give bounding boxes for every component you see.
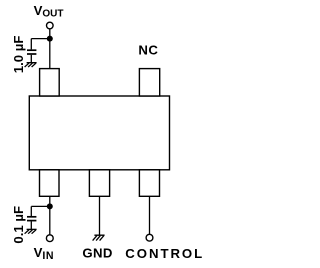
wire: VOUT terminal to pin 5 xyxy=(49,29,51,69)
svg-text:0.1 µF: 0.1 µF xyxy=(11,206,26,244)
svg-text:NC: NC xyxy=(138,43,158,58)
ground (C1) xyxy=(25,63,37,67)
capacitor C1 1.0uF xyxy=(27,39,36,63)
capacitor C2 0.1uF xyxy=(27,206,36,229)
node: VOUT junction dot xyxy=(47,36,53,42)
VOUT terminal circle xyxy=(47,22,54,29)
wire: pin 3 to CONTROL terminal xyxy=(149,196,151,234)
wire: junction to capacitor C1 xyxy=(31,38,50,40)
ground (C2) xyxy=(25,229,37,233)
svg-text:CONTROL: CONTROL xyxy=(125,246,204,261)
svg-text:VIN: VIN xyxy=(34,245,54,262)
wire: pin 1 to VIN terminal xyxy=(49,196,51,234)
pin 1 (bottom-left, VIN pin) xyxy=(40,170,60,197)
node: VIN junction dot xyxy=(47,203,53,209)
svg-text:GND: GND xyxy=(82,246,112,261)
ground (GND pin) xyxy=(93,235,105,240)
pin 2 (bottom-middle, GND pin) xyxy=(89,170,109,197)
IC body U1 xyxy=(29,96,169,170)
wire: junction to capacitor C2 xyxy=(31,205,50,207)
pin 5 (top-left, VOUT pin) xyxy=(40,69,60,96)
pin 4 (top-right, NC pin) xyxy=(139,69,159,96)
svg-text:1.0 µF: 1.0 µF xyxy=(11,36,26,74)
VIN terminal circle xyxy=(46,235,53,242)
pin 3 (bottom-right, CONTROL pin) xyxy=(139,170,159,197)
CONTROL terminal circle xyxy=(146,234,153,241)
svg-text:VOUT: VOUT xyxy=(34,3,64,20)
wire: pin 2 to ground xyxy=(99,196,101,235)
